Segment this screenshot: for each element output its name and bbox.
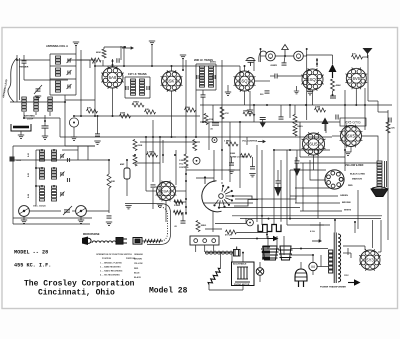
resistor R3: [87, 109, 98, 113]
junction 19: [239, 121, 241, 123]
svg-text:47K: 47K: [87, 107, 91, 110]
wire x209 link: [208, 122, 210, 150]
wire bottom bus y219: [240, 218, 381, 220]
ground dome (top mid): [246, 58, 256, 67]
wire y101 corner: [368, 100, 378, 102]
svg-text:220K: 220K: [138, 145, 143, 147]
candohm resistor (square-wave): [258, 225, 281, 232]
junction 23: [305, 104, 307, 106]
wire M drop: [312, 255, 314, 262]
wire gang2 right: [86, 210, 109, 212]
wire 2nd IF bottom: [196, 89, 216, 91]
ground (V6 cathode): [157, 204, 163, 207]
wire x203 link: [202, 105, 204, 122]
capacitor C17b: [250, 167, 255, 169]
tube V8 6X5: [340, 125, 363, 148]
resistor R16b: [133, 155, 137, 166]
svg-text:ORANGE: ORANGE: [134, 253, 143, 256]
wire V3 left gnd stem: [227, 85, 229, 92]
tone control shaft: [279, 246, 293, 260]
svg-text:OPERATION OF FUNCTION SWITCH: OPERATION OF FUNCTION SWITCH: [96, 253, 132, 256]
junction 13: [145, 136, 147, 138]
junction 49: [35, 185, 37, 187]
svg-text:22K: 22K: [145, 109, 149, 111]
wire phono cable drop: [170, 213, 172, 234]
capacitor C11 (coupling): [330, 96, 336, 98]
svg-text:4MF: 4MF: [120, 163, 125, 166]
wire to WHITE: [300, 210, 342, 212]
svg-text:LOOP: LOOP: [27, 118, 34, 120]
power transformer core: [334, 233, 336, 284]
svg-text:2.2K: 2.2K: [391, 128, 396, 130]
wire C9 top lead: [97, 116, 99, 134]
wire R22 bottom: [208, 285, 210, 291]
arrow antenna feed: [122, 46, 134, 49]
capacitor C16: [336, 115, 338, 120]
svg-text:455 KC. I.F.: 455 KC. I.F.: [14, 263, 51, 269]
wire x222 vertical: [221, 60, 223, 150]
svg-text:2 MEG: 2 MEG: [174, 205, 181, 207]
wire x262 vertical: [261, 150, 263, 225]
svg-text:BLACK: BLACK: [134, 276, 142, 279]
wire x303 vertical: [302, 163, 304, 211]
shield braid (dotted): [147, 207, 168, 242]
tube V5 6V6: [345, 67, 367, 89]
ballast resistor element: [235, 267, 250, 282]
svg-text:6V6: 6V6: [353, 76, 361, 81]
wire x281 vertical: [280, 160, 282, 222]
label box 6X5GT: [340, 118, 366, 126]
resistor R14: [386, 122, 390, 133]
capacitor C15: [279, 117, 284, 119]
wire x160 vertical: [159, 137, 161, 200]
wire bus y116: [75, 115, 200, 117]
wire motor to ground: [73, 127, 75, 137]
connector dot row: [205, 251, 233, 254]
wire drop to 6A8 grid: [89, 60, 91, 68]
wire electrolytic top lead: [126, 160, 128, 168]
wire left edge bus x19: [19, 58, 21, 100]
wire candohm drop 3: [283, 236, 285, 255]
svg-text:220K: 220K: [315, 107, 321, 109]
battery (bias cell): [11, 124, 31, 131]
wire x306 vertical: [306, 49, 308, 120]
ground (phono shield): [125, 206, 131, 209]
wire eye arrow stem: [325, 121, 327, 133]
svg-text:B-54: B-54: [27, 194, 30, 198]
junction 3: [182, 69, 184, 71]
switch contact stub top: [204, 176, 206, 184]
svg-text:Cincinnati, Ohio: Cincinnati, Ohio: [38, 289, 115, 298]
coil 2nd IF primary: [200, 66, 205, 87]
ground (antenna tune): [35, 96, 41, 99]
wire y170 run: [186, 169, 240, 171]
phono cable corner: [162, 204, 171, 213]
wire lamp bus to R7: [306, 54, 333, 56]
wire C19 top lead: [182, 212, 184, 221]
wire bias cell to ground: [20, 131, 22, 135]
junction 29: [289, 149, 291, 151]
junction osc A1: [41, 149, 43, 151]
wire AC line 2: [291, 254, 313, 256]
svg-text:450K: 450K: [336, 84, 342, 87]
wire x345 vertical: [344, 90, 346, 150]
junction 26: [355, 104, 357, 106]
wire x222 into switch: [221, 182, 223, 184]
wire 2nd IF left: [195, 64, 197, 90]
svg-text:3300: 3300: [185, 107, 191, 109]
wire V3 plate out: [255, 80, 271, 82]
svg-text:B-52: B-52: [28, 153, 30, 157]
capacitor C17: [295, 161, 300, 163]
svg-text:500K: 500K: [230, 153, 236, 155]
junction 10: [185, 136, 187, 138]
junction 37: [300, 248, 302, 250]
resistor R4: [120, 114, 131, 118]
wire y163 run: [135, 162, 160, 164]
junction V6 e: [185, 173, 187, 175]
coil oscillator B2: [52, 168, 57, 179]
trimmer arrow osc B: [60, 172, 65, 177]
function switch contacts: [213, 185, 234, 209]
tube V7 6U5 tuning eye: [302, 132, 326, 156]
variable capacitor (antenna tune): [36, 89, 41, 91]
wire V3 down: [244, 91, 246, 105]
ground (osc cap): [106, 222, 112, 225]
wire x318 vertical: [317, 150, 319, 218]
coil oscillator C: [40, 186, 45, 201]
wire rectifier left stub: [350, 253, 352, 258]
capacitor C19: [181, 221, 186, 223]
ground (V8): [345, 152, 351, 155]
wire to GREEN: [290, 195, 338, 197]
wire x121 up: [120, 46, 122, 60]
coil oscillator A2: [52, 150, 57, 161]
field coil (dark hatched): [262, 247, 270, 259]
junction 35: [334, 219, 336, 221]
wire 2nd IF right: [215, 64, 217, 90]
ground (V4 grid return): [294, 91, 299, 94]
svg-text:TONE CONTROL: TONE CONTROL: [230, 157, 248, 159]
wire V4 cathode to gnd: [309, 88, 311, 92]
motor circle M: [309, 262, 317, 270]
junction 18: [221, 149, 223, 151]
wire electrolytic bottom lead: [126, 179, 128, 196]
junction 42: [44, 120, 46, 122]
wire HT mid: [343, 252, 351, 254]
mic cable with hatches: [142, 239, 163, 243]
wire bus y122: [200, 121, 340, 123]
svg-text:22K: 22K: [111, 181, 115, 183]
wire R7 bottom lead: [332, 91, 334, 95]
wire xfmr to cone 2: [381, 187, 383, 189]
svg-text:1MEG: 1MEG: [297, 126, 303, 128]
svg-text:B-53: B-53: [28, 173, 30, 177]
ground (C17b): [249, 174, 255, 177]
svg-text:The Crosley Corporation: The Crosley Corporation: [24, 280, 135, 289]
svg-text:POSITION: POSITION: [102, 258, 112, 260]
junction 14: [162, 154, 164, 156]
wire x88 osc drop: [87, 146, 89, 160]
junction osc C1: [41, 185, 43, 187]
wire x60 drop: [59, 118, 61, 137]
resistor R21: [293, 126, 297, 136]
wire V4 down: [312, 90, 314, 105]
wire gang2 to ground: [80, 216, 82, 220]
ground (gang rotor 1): [21, 220, 27, 223]
wire bottom bus y216: [232, 215, 382, 217]
wire bottom-left bus y218: [13, 217, 92, 219]
coil 1st IF primary: [131, 79, 136, 95]
wire y112 to bus: [378, 111, 388, 113]
trimmer capacitor 2nd IF sec: [213, 75, 215, 79]
wire x95 vertical: [94, 60, 96, 116]
wire B- run left: [230, 238, 267, 240]
wire rectifier plate stub: [364, 246, 366, 250]
coil 2nd IF secondary: [209, 66, 214, 87]
wire C18 down: [152, 188, 154, 209]
microphone symbol: [82, 237, 91, 246]
wire 2nd IF top: [196, 63, 216, 65]
svg-text:VOL CONTROL: VOL CONTROL: [242, 141, 259, 143]
microphone cord: [92, 241, 116, 243]
triangle ground (C24): [274, 183, 282, 196]
capacitor C13 500pf: [265, 91, 270, 93]
ground (C17a): [228, 170, 234, 173]
svg-text:115V: 115V: [344, 275, 349, 277]
wire C12 to V4: [277, 75, 302, 77]
junction 46: [126, 159, 128, 161]
junction 11: [195, 136, 197, 138]
wire x213 upper drop: [212, 105, 214, 122]
wire strip drop 1: [195, 245, 197, 252]
arrow feed right: [258, 140, 266, 143]
wire transformer top feed: [334, 220, 336, 233]
wire 1st IF left: [124, 77, 126, 98]
svg-text:GREEN: GREEN: [340, 195, 348, 197]
antenna lead curve: [8, 58, 17, 102]
svg-text:M: M: [311, 264, 314, 269]
wire x372 drop to rectifier: [372, 220, 374, 248]
coil oscillator C2: [52, 186, 57, 201]
resistor R22 (diagonal): [208, 268, 220, 284]
wire x300 drop: [299, 122, 301, 157]
wire y232 link: [237, 232, 268, 234]
junction 27: [364, 104, 366, 106]
wire antenna input run: [17, 59, 50, 61]
trimmer capacitor 2nd IF pri: [197, 75, 199, 79]
svg-text:BLACK & RED: BLACK & RED: [350, 173, 365, 176]
wire C24 top lead: [277, 170, 279, 181]
wire V1 cathode down: [112, 88, 114, 116]
junction lamp2 stub: [306, 48, 308, 50]
resistor R17 volume: [226, 142, 238, 146]
coil oscillator B: [40, 168, 45, 179]
wire tuning stack left: [49, 54, 51, 95]
svg-text:4.7K: 4.7K: [225, 112, 230, 115]
junction 44: [80, 115, 82, 117]
ground (motor circle): [71, 137, 77, 140]
wire x365 stub: [364, 88, 366, 105]
junction osc A2: [53, 149, 55, 151]
volume pot wiper circle: [212, 137, 217, 142]
svg-text:MAROON: MAROON: [352, 178, 362, 181]
svg-text:BLUE: BLUE: [134, 272, 140, 274]
wire HT top to rectifier: [343, 245, 365, 247]
power transformer winding (left): [329, 250, 333, 273]
resistor R9: [185, 108, 196, 112]
hook wire (lamp1 feed): [259, 51, 266, 62]
resistor R8: [145, 110, 156, 114]
junction 16: [134, 154, 136, 156]
wire x287 vertical: [286, 150, 288, 225]
ballast box: [232, 262, 255, 286]
junction 2: [151, 65, 153, 67]
ground (padder): [42, 136, 48, 139]
antenna triangle (between lamps): [282, 45, 289, 57]
wire R2 bottom lead: [108, 188, 110, 213]
wire y102 run: [10, 101, 65, 103]
wire loop top tie: [24, 79, 68, 81]
junction 15: [174, 154, 176, 156]
svg-text:MICROPHONE: MICROPHONE: [83, 233, 100, 236]
wire lamp top feed: [245, 218, 247, 224]
wire x321 link: [320, 255, 322, 267]
ground (gang rotor 2): [78, 220, 84, 223]
capacitor osc B: [61, 172, 63, 176]
tube V9 5Y3 rectifier: [359, 249, 381, 271]
resistor R18 tone: [241, 154, 252, 158]
svg-text:1MEG: 1MEG: [201, 225, 207, 227]
junction 12: [159, 136, 161, 138]
wire x358 drop: [357, 190, 359, 229]
wire 1st IF top: [125, 76, 150, 78]
wire C14 bottom: [202, 97, 204, 105]
junction 45: [108, 159, 110, 161]
wire y170 right: [290, 169, 326, 171]
junction V3 top: [244, 65, 246, 67]
svg-text:Model 28: Model 28: [149, 287, 188, 296]
wire V8 right: [362, 136, 379, 150]
capacitor C8 (osc): [107, 216, 112, 218]
wire V6 cathode down: [165, 201, 167, 223]
wire candohm drop 2: [276, 236, 278, 249]
wire y142 run: [140, 141, 200, 143]
wire coil to tube: [68, 59, 90, 61]
wire x230 drop: [229, 122, 231, 182]
junction V2 top: [171, 65, 173, 67]
wire y163 run: [300, 162, 378, 164]
wire tuning stack top: [50, 53, 76, 55]
junction 8: [152, 136, 154, 138]
wire loop bottom tie: [24, 117, 60, 119]
wire 2nd IF left down: [195, 90, 197, 137]
wire x296 vertical: [295, 157, 297, 203]
junction V6 b: [185, 198, 187, 200]
wire V6 grid drop x146: [145, 137, 147, 191]
capacitor C24: [276, 181, 281, 183]
wire switch staircase 3: [235, 196, 296, 199]
dial lamp 2: [294, 51, 304, 61]
junction osc B2: [53, 167, 55, 169]
tube V4 6SQ7GT: [301, 68, 324, 91]
wire lamp bottom lead: [259, 275, 261, 282]
svg-text:RED: RED: [134, 268, 139, 270]
junction 48: [35, 167, 37, 169]
coil L3 (RF tertiary): [56, 81, 61, 92]
wire switch staircase 2: [218, 207, 300, 209]
gang condenser rotor 2: [76, 206, 87, 217]
junction osc C2: [53, 185, 55, 187]
wire V1 top stub: [112, 66, 114, 67]
svg-text:BROWN: BROWN: [134, 259, 142, 261]
wire V4 grid return stem: [296, 86, 298, 91]
wire x153 vertical: [152, 120, 154, 182]
wire x368 drop: [367, 55, 369, 101]
wire out lamp2: [303, 55, 306, 57]
pilot lamp (X): [256, 268, 264, 276]
wire y188 run: [295, 187, 330, 189]
coil 1st IF secondary: [140, 79, 145, 95]
wire speaker socket left: [310, 160, 326, 180]
junction 22: [289, 104, 291, 106]
resistor R2 (osc grid leak): [107, 174, 111, 188]
resistor R6 (V5 grid): [352, 55, 363, 59]
svg-text:6SQ7: 6SQ7: [307, 77, 319, 82]
wire 1st IF bottom: [125, 97, 150, 99]
wire M to transformer: [317, 266, 328, 268]
antenna symbol (top right): [363, 48, 373, 58]
junction 43: [64, 101, 66, 103]
svg-text:PHONO MOTOR: PHONO MOTOR: [234, 284, 250, 286]
ground (C9): [94, 141, 100, 144]
wire x240 upper: [239, 66, 241, 76]
resistor R25: [220, 107, 224, 119]
svg-text:250K: 250K: [120, 113, 126, 115]
wire to C10: [284, 56, 285, 63]
capacitor .0005 (left rail): [10, 157, 22, 163]
ground (above V2): [180, 55, 186, 58]
wire x365 drop: [364, 105, 366, 130]
junction 0: [94, 65, 96, 67]
trimmer capacitor C1: [68, 59, 70, 63]
mic connector plug A: [116, 238, 127, 245]
arrow B+ out: [348, 279, 361, 286]
wire phono feed y203: [125, 203, 162, 205]
capacitor C10 (.05MFD): [282, 63, 287, 65]
resistor R16c 400K: [193, 140, 197, 151]
wire x214 drop: [213, 150, 215, 182]
svg-text:WHITE: WHITE: [344, 210, 352, 212]
wire y137 jog: [160, 136, 176, 138]
wire y229 link: [205, 228, 222, 230]
svg-text:VOL.: VOL.: [179, 164, 184, 166]
coil L1 (RF primary): [56, 56, 61, 64]
wire to rf amp grid: [77, 59, 95, 61]
trimmer arrow (oscillator): [63, 206, 72, 215]
wire padder to loop: [44, 115, 46, 121]
capacitor C14: [201, 95, 206, 97]
ground (top of 1st IF): [149, 41, 155, 44]
junction 6: [97, 115, 99, 117]
wire candohm tap down: [266, 232, 268, 239]
resistor R15: [147, 153, 158, 157]
coil L2 (RF secondary): [56, 68, 61, 76]
wire x274 vertical: [273, 150, 275, 224]
electrolytic capacitor (left): [124, 168, 130, 179]
padder capacitor: [42, 126, 49, 128]
volume potentiometer circle: [193, 157, 200, 164]
